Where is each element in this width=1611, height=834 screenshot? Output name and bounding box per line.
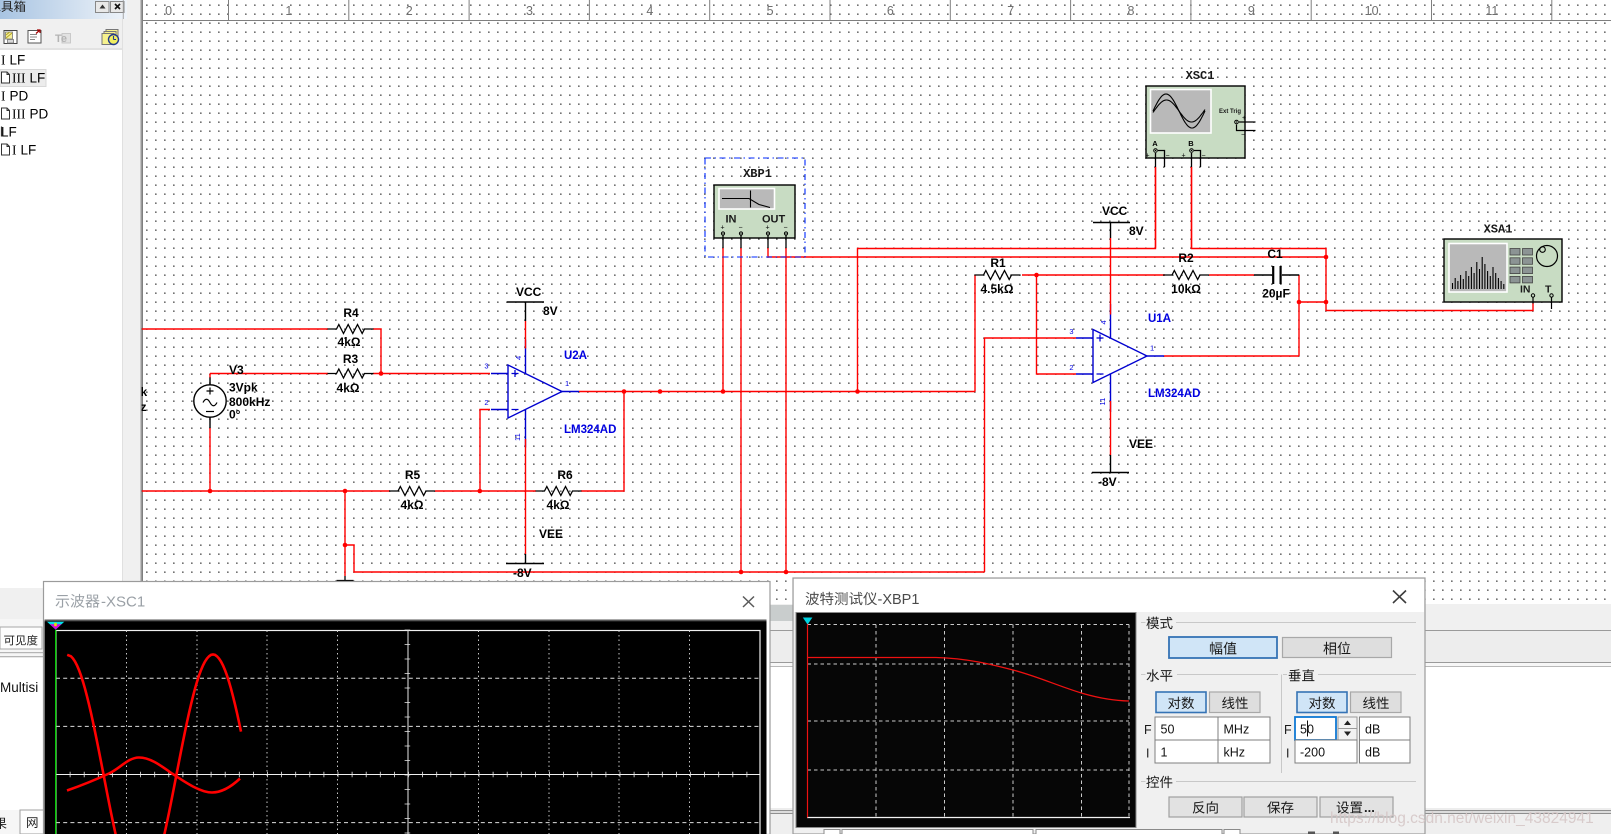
svg-text:kHz: kHz [1224,746,1246,760]
svg-text:-XBP1: -XBP1 [878,592,920,608]
svg-text:5: 5 [767,4,774,18]
spectrum analyzer XSA1 icon [1444,223,1562,310]
oscilloscope XSC1 icon [1146,69,1256,248]
svg-text:-200: -200 [1300,746,1325,760]
left toolbox panel [0,0,142,834]
node: R1/R2 junction [1034,273,1039,278]
svg-text:20µF: 20µF [1262,287,1290,301]
ground symbol [337,545,354,588]
svg-text:10: 10 [1365,4,1379,18]
svg-text:2: 2 [484,398,488,407]
svg-text:Ext Trig: Ext Trig [1219,109,1241,115]
svg-text:11: 11 [1485,4,1498,18]
svg-text:IIIPD: IIIPD [12,107,49,122]
svg-text:4kΩ: 4kΩ [547,498,570,512]
node: XBP1 OUT- junction [784,570,789,575]
wire: R6 right up to U2A output [581,392,624,492]
svg-text:dB: dB [1365,723,1380,737]
wire: scope channel B [1192,167,1327,302]
svg-text:+: + [1146,153,1150,160]
svg-text:4kΩ: 4kΩ [338,335,361,349]
svg-text:R4: R4 [343,306,359,320]
wire: R2 to C1 [1209,274,1254,276]
capacitor C1 20uF [1254,247,1299,301]
svg-text:F: F [1144,723,1152,737]
wire: to XSA1 input [1326,302,1533,311]
svg-text:XBP1: XBP1 [743,167,772,181]
svg-text:4kΩ: 4kΩ [337,381,360,395]
node: wire joint [658,389,663,394]
wire: junction down to U1A pin2 [1037,275,1077,374]
svg-text:4kΩ: 4kΩ [401,498,424,512]
svg-text:+: + [720,225,724,232]
svg-text:−: − [1166,153,1170,160]
svg-text:−: − [738,225,742,232]
svg-text:11: 11 [1098,398,1107,406]
svg-text:−: − [1202,153,1206,160]
svg-text:4: 4 [514,356,523,360]
svg-text:XSA1: XSA1 [1484,223,1513,237]
voltage source V3 [194,363,271,428]
bode plotter window XBP1 [793,578,1425,834]
svg-text:VEE: VEE [539,527,563,541]
svg-text:U2A: U2A [564,350,587,362]
wire: left input to R4 [141,328,328,330]
node: XBP1 IN+ tap [721,389,726,394]
svg-text:A: A [1152,139,1158,148]
svg-text:VCC: VCC [1102,204,1128,218]
svg-text:4: 4 [646,4,653,18]
wire: XBP1 OUT- to bottom bus [785,248,787,572]
svg-text:3: 3 [1069,327,1073,336]
svg-text:4: 4 [1099,320,1108,324]
resistor R4 4k [328,306,374,349]
svg-text:-8V: -8V [513,566,532,580]
wire: R3 to U2A pin3 [373,373,490,375]
svg-text:LF: LF [1,125,17,140]
node: scope A tap [855,389,860,394]
wire: XBP1 OUT+ to output node [768,248,1326,257]
svg-text:2: 2 [406,4,413,18]
wire: R4 right down to R3 node [373,329,381,374]
svg-text:−: − [1241,132,1245,139]
wire: output node link [1299,301,1326,303]
svg-text:IPD: IPD [1,89,29,104]
wire: R5 to R6 [435,490,536,492]
svg-text:Te: Te [55,33,67,45]
svg-text:R5: R5 [405,468,421,482]
node: OUT+ joins channel B [1324,255,1329,260]
wire: V3 top to R3 row [210,373,328,375]
svg-text:6: 6 [887,4,894,18]
wire: V3 bottom down [209,428,211,491]
clipped source labels at canvas edge [141,385,148,414]
svg-text:U1A: U1A [1148,313,1171,325]
svg-text:4.5kΩ: 4.5kΩ [981,282,1014,296]
svg-text:R2: R2 [1178,251,1194,265]
svg-text:50: 50 [1161,723,1175,737]
svg-text:IN: IN [1520,284,1531,296]
node: feedback junction on bottom bus [478,489,483,494]
node: XBP1 IN- junction [739,570,744,575]
svg-text:1: 1 [1150,344,1154,353]
svg-text:0: 0 [165,4,172,18]
wire: R1 to R2 [1022,274,1165,276]
op-amp U1A LM324AD [1069,304,1200,412]
svg-text:3: 3 [484,362,488,371]
svg-text:11: 11 [513,433,522,441]
svg-text:MHz: MHz [1224,723,1250,737]
svg-text:10kΩ: 10kΩ [1171,282,1201,296]
bottom-left panels [0,619,44,834]
svg-text:XSC1: XSC1 [1186,69,1215,83]
wire: XBP1 IN- to bottom bus [740,248,742,572]
U1A VEE power -8V [1092,401,1153,489]
node: R6 tap [622,389,627,394]
svg-text:I: I [1146,747,1149,761]
svg-text:dB: dB [1365,746,1380,760]
svg-text:V3: V3 [229,363,244,377]
svg-text:9: 9 [1248,4,1255,18]
resistor R2 10k [1163,251,1209,296]
svg-text:8V: 8V [1129,224,1144,238]
svg-text:IN: IN [726,214,737,226]
svg-text:F: F [1284,723,1292,737]
svg-text:+: + [765,225,769,232]
node: R3/R4 junction [379,371,384,376]
wire: VEE bottom bus [345,545,985,572]
svg-text:3Vpk: 3Vpk [229,381,258,395]
svg-text:Multisi: Multisi [0,680,38,695]
svg-text:3: 3 [526,4,533,18]
node: C1/output junction [1297,300,1302,305]
wire: bottom bus to R5 [141,490,390,492]
wire: C1 right down to U1A output [1164,275,1299,356]
wire: U2A pin2 feedback down [480,410,490,492]
U1A VCC power 8V [1093,204,1144,315]
schematic canvas background [141,0,1611,604]
U2A VCC power 8V [507,285,558,349]
resistor R3 4k [328,352,374,395]
svg-text:-8V: -8V [1098,475,1117,489]
svg-text:I: I [1286,747,1289,761]
node: V3 bottom junction [208,489,213,494]
svg-text:https://blog.csdn.net/weixin_4: https://blog.csdn.net/weixin_43824941 [1330,810,1594,827]
svg-text:8V: 8V [543,304,558,318]
svg-text:R3: R3 [343,352,359,366]
svg-text:1: 1 [1161,746,1168,760]
svg-text:7: 7 [1007,4,1014,18]
svg-text:C1: C1 [1267,247,1283,261]
node: ground branch junction [343,489,348,494]
resistor R5 4k [389,468,435,512]
svg-text:+: + [1242,115,1246,122]
svg-text:B: B [1188,139,1194,148]
svg-text:LM324AD: LM324AD [564,424,616,436]
svg-text:VEE: VEE [1129,437,1153,451]
svg-text:ILF: ILF [12,143,36,158]
svg-text:R6: R6 [557,468,573,482]
oscilloscope window XSC1 [44,582,771,834]
op-amp U2A LM324AD [484,340,616,448]
node: output bus junction [1324,300,1329,305]
wire: U1A pin3 from bottom bus [985,338,1077,572]
svg-text:1: 1 [565,379,569,388]
toolbox list [0,53,49,158]
resistor R6 4k [536,468,582,512]
svg-text:50: 50 [1300,723,1314,737]
canvas bottom scrollbar and lower pane [760,604,1611,622]
wire: XBP1 IN+ [722,248,724,392]
svg-text:8: 8 [1128,4,1135,18]
svg-text:ILF: ILF [1,53,25,68]
wire: scope channel A [858,167,1156,392]
svg-text:2: 2 [1069,363,1073,372]
svg-text:-XSC1: -XSC1 [101,594,145,611]
svg-text:+: + [1182,153,1186,160]
wire: ground branch [344,491,346,545]
resistor R1 4.5k [975,256,1021,296]
sheet border band [142,0,1611,604]
svg-text:1: 1 [285,4,292,18]
svg-text:IIILF: IIILF [12,71,45,86]
svg-text:VCC: VCC [516,285,542,299]
U2A VEE power -8V [506,439,563,580]
svg-text:0°: 0° [229,408,241,422]
node: bus corner junction [343,543,348,548]
wire: U2A output bus [579,275,975,392]
svg-text:−: − [783,225,787,232]
bode plotter XBP1 icon [705,158,805,257]
svg-text:R1: R1 [990,256,1006,270]
svg-text:LM324AD: LM324AD [1148,388,1200,400]
